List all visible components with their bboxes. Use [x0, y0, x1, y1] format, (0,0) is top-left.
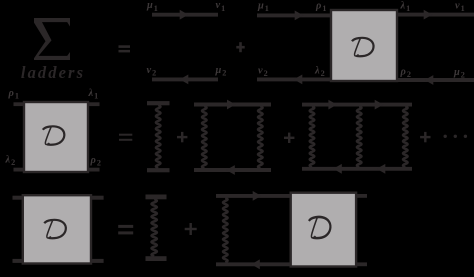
svg-text:ladders: ladders [21, 63, 85, 82]
ladder2 right wavy [258, 106, 263, 168]
D box row2 [24, 102, 88, 172]
row3 term2 wavy rung [223, 198, 228, 262]
summation symbol [34, 18, 70, 60]
plus row2 b [284, 137, 294, 139]
arrow left term1 bottom [180, 75, 189, 85]
fermion line bottom-right term2 [397, 78, 474, 82]
ladder3 top line [302, 103, 412, 107]
ellipsis dots [444, 135, 447, 138]
ladder2 bottom line [194, 168, 271, 172]
fermion line top-right term2 [397, 13, 474, 17]
rung row3 bottom stub [146, 256, 167, 261]
fermion line top-left term2 [257, 13, 332, 17]
ladder2 top line [194, 103, 271, 107]
row3 term2 bottom arrow [251, 259, 260, 269]
fermion line bottom term1 [152, 77, 218, 81]
ladder3 bottom arrow 2 [377, 164, 386, 174]
ladder3 wavy 2 [357, 106, 362, 167]
stub bottom-right row3 box2 [356, 262, 367, 266]
ladder3 wavy 3 [403, 106, 408, 167]
script D row1 [352, 38, 374, 56]
arrow right term2 top-left [295, 11, 304, 21]
rung term1 row2 bottom stub [147, 168, 170, 172]
plus row2 c [420, 136, 430, 138]
ladder2 left wavy [202, 106, 207, 168]
ladder3 wavy 1 [310, 106, 315, 167]
script D row2 [43, 126, 65, 144]
ladder3 top arrow 2 [375, 100, 384, 110]
ladder2 top arrow [227, 100, 236, 110]
arrow right term2 top-right [424, 10, 433, 20]
stub top-left row3 box [13, 196, 23, 200]
arrow right term1 top [180, 10, 189, 20]
ladder3 bottom line [302, 167, 412, 171]
D box row3 right [291, 193, 356, 267]
script D row3 right [309, 217, 331, 238]
plus row3 [185, 228, 197, 230]
stub bottom-right row2 box [88, 168, 100, 172]
plus row2 a [177, 136, 187, 138]
stub bottom-left row3 box [13, 259, 23, 263]
equals row2 [119, 134, 132, 136]
stub top-right row3 box2 [356, 194, 367, 198]
rung term1 row2 wavy line [156, 105, 161, 168]
script D row3 left [44, 220, 66, 238]
arrow left term2 bottom-left [294, 75, 303, 85]
fermion line top term1 [152, 13, 218, 17]
stub bottom-left row2 box [14, 168, 25, 172]
plus row1 [236, 46, 244, 49]
stub top-left row2 box [14, 102, 25, 106]
row3 term2 bottom line [216, 262, 292, 266]
arrow left term2 bottom-right [425, 75, 434, 85]
row3 term2 top arrow [253, 191, 262, 201]
rung row3 wavy line [152, 199, 157, 256]
D box row1 [331, 10, 397, 81]
rung term1 row2 top stub [147, 101, 170, 105]
ladder3 bottom arrow 1 [333, 164, 342, 174]
ladder2 bottom arrow [226, 165, 235, 175]
equals row3 [118, 225, 133, 228]
rung row3 top stub [146, 195, 167, 200]
stub top-right row2 box [88, 102, 100, 106]
stub bottom-right row3 box [91, 259, 104, 263]
ladder3 top arrow 1 [328, 100, 337, 110]
equals row1 [119, 45, 131, 48]
D box row3 left [23, 195, 91, 263]
fermion line bottom-left term2 [257, 77, 332, 81]
stub top-right row3 box [91, 196, 104, 200]
row3 term2 top line [216, 194, 292, 198]
